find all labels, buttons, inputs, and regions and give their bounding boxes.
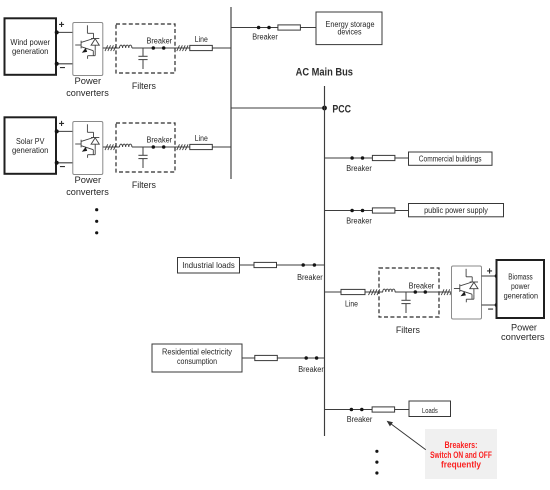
node: solar + terminal (55, 129, 59, 133)
wire: bus to biomass filter (325, 291, 384, 293)
public power supply box (409, 204, 504, 217)
svg-text:+: + (59, 119, 65, 130)
converter IGBT (solar) (IGBT with anti-parallel diode) (75, 124, 99, 158)
svg-text:Line: Line (195, 134, 208, 143)
breaker CB (industrial): label "Breaker" (297, 273, 323, 282)
filter dashed box (solar) (116, 123, 175, 172)
breaker CB (residential): contact dots (304, 356, 318, 360)
svg-text:Filters: Filters (132, 81, 156, 92)
line symbol (residential feeder) (transmission line symbol) (255, 355, 277, 360)
svg-text:Breaker: Breaker (346, 216, 372, 225)
converter IGBT (wind) (IGBT with anti-parallel diode) (75, 25, 99, 59)
svg-text:+: + (487, 267, 493, 278)
svg-text:converters: converters (501, 332, 545, 343)
wire: residential to bus (242, 357, 325, 359)
breaker CB (residential): label "Breaker" (298, 365, 324, 374)
breaker CB (public): label "Breaker" (346, 216, 372, 225)
secondary vertical bus from PCC (324, 86, 326, 436)
svg-text:Line: Line (345, 300, 358, 309)
breaker CB (biomass): label "Breaker" (409, 282, 435, 291)
svg-text:Line: Line (195, 35, 208, 44)
node: wind − terminal (55, 62, 59, 66)
wire: bus to public power supply (325, 210, 409, 212)
ellipsis dots (more generation chains) (95, 208, 98, 234)
filter capacitor C (solar) (138, 147, 147, 168)
wire: bus to commercial buildings (325, 157, 409, 159)
caption "Power converters" (wind) (75, 76, 102, 87)
wire: wind filter to AC main bus (132, 47, 231, 49)
label "−" (wind) (59, 63, 65, 74)
svg-text:Industrial loads: Industrial loads (182, 261, 235, 270)
svg-text:generation: generation (504, 292, 538, 301)
ellipsis dots (more load feeders) (375, 450, 378, 475)
breaker CB-ES: contact dots (257, 26, 271, 30)
svg-text:−: − (59, 162, 65, 173)
line symbol (commercial feeder) (transmission line symbol) (372, 155, 395, 160)
breaker CB (industrial): contact dots (301, 263, 316, 267)
wire: solar filter to AC main bus (132, 146, 231, 148)
breaker CB (solar): label "Breaker" (147, 135, 173, 144)
label "AC Main Bus" (296, 66, 353, 78)
industrial loads box (178, 258, 240, 274)
wind source box (5, 18, 57, 75)
wire: solar + terminal to converter (57, 130, 73, 132)
wire: wind − terminal to converter (57, 63, 73, 65)
filter inductor L (solar) (120, 144, 132, 147)
line symbol (public feeder) (transmission line symbol) (372, 208, 395, 213)
biomass power generation box (497, 260, 545, 318)
svg-text:generation: generation (12, 47, 49, 56)
flexible-link slashes (biomass line side) (hatch marks on wire) (369, 289, 380, 295)
flexible-link slashes (wind line side) (hatch marks on wire) (177, 45, 188, 51)
svg-text:generation: generation (12, 146, 49, 155)
svg-text:Breaker: Breaker (147, 36, 173, 45)
filter capacitor C (wind) (138, 48, 147, 69)
breaker CB (loads): label "Breaker" (347, 415, 373, 424)
svg-text:Power: Power (75, 76, 102, 87)
wire: solar − terminal to converter (57, 162, 73, 164)
svg-text:converters: converters (66, 88, 109, 99)
label "Line" (biomass) (345, 300, 358, 309)
node: biomass − terminal (495, 303, 499, 307)
line symbol (industrial feeder) (transmission line symbol) (254, 262, 277, 267)
svg-text:Biomass: Biomass (508, 273, 532, 282)
wire: biomass filter to converter (395, 291, 452, 293)
flexible-link slashes (wind converter output) (hatch marks on wire) (105, 45, 116, 51)
svg-text:Switch ON and OFF: Switch ON and OFF (430, 450, 492, 460)
label "Line" (wind) (195, 35, 208, 44)
annotation text "Breakers: Switch ON and OFF frequently" (430, 440, 492, 470)
line symbol (biomass feeder) (transmission line symbol) (341, 289, 365, 294)
breaker CB (solar): contact dots (152, 145, 166, 149)
filter inductor L (wind) (120, 45, 132, 48)
svg-text:frequently: frequently (441, 460, 482, 470)
commercial buildings box (409, 152, 493, 165)
node: biomass + terminal (495, 274, 499, 278)
loads box (409, 401, 451, 417)
line symbol (loads feeder) (transmission line symbol) (372, 407, 395, 412)
svg-text:+: + (59, 20, 65, 31)
svg-text:Breakers:: Breakers: (445, 440, 478, 450)
flexible-link slashes (biomass converter input) (hatch marks on wire) (441, 289, 452, 295)
wire: biomass converter − to source (482, 304, 497, 306)
label "+" (solar) (59, 119, 65, 130)
svg-text:Filters: Filters (132, 180, 156, 191)
svg-text:devices: devices (338, 28, 362, 37)
breaker CB (biomass): contact dots (414, 290, 428, 294)
line symbol (solar feeder) (transmission line symbol) (190, 144, 213, 149)
flexible-link slashes (solar converter output) (hatch marks on wire) (105, 144, 116, 150)
breaker CB (public): contact dots (350, 209, 364, 213)
breaker CB (wind): label "Breaker" (147, 36, 173, 45)
annotation arrow pointing to loads breaker (387, 421, 426, 450)
svg-text:Wind power: Wind power (10, 38, 50, 47)
breaker CB (commercial): contact dots (350, 156, 364, 160)
svg-text:power: power (511, 282, 530, 291)
svg-text:Breaker: Breaker (409, 282, 435, 291)
svg-text:Breaker: Breaker (252, 33, 278, 42)
svg-text:Breaker: Breaker (346, 164, 372, 173)
label "+" (wind) (59, 20, 65, 31)
converter IGBT (biomass) (IGBT with anti-parallel diode) (454, 269, 478, 303)
svg-text:consumption: consumption (177, 357, 217, 366)
caption "Power converters" (solar) (75, 175, 102, 186)
flexible-link slashes (solar line side) (hatch marks on wire) (177, 144, 188, 150)
svg-text:−: − (59, 63, 65, 74)
breaker CB (commercial): label "Breaker" (346, 164, 372, 173)
power converter box (biomass) (452, 266, 482, 319)
svg-text:Residential electricity: Residential electricity (162, 348, 232, 357)
breaker CB (wind): contact dots (152, 46, 166, 50)
label "PCC" (332, 104, 351, 116)
svg-text:Power: Power (75, 175, 102, 186)
line symbol (wind feeder) (transmission line symbol) (190, 45, 213, 50)
svg-text:Solar PV: Solar PV (16, 137, 45, 146)
node: wind + terminal (55, 30, 59, 34)
caption "Filters" (solar) (132, 180, 156, 191)
svg-text:Breaker: Breaker (347, 415, 373, 424)
wire: bus tie to PCC (231, 107, 325, 109)
power converter box (wind) (73, 23, 103, 76)
caption "Power converters" (biomass) (511, 323, 538, 334)
solar source box (5, 117, 57, 174)
svg-text:AC Main Bus: AC Main Bus (296, 66, 353, 78)
svg-text:Commercial buildings: Commercial buildings (419, 155, 482, 164)
wire: bus to loads (325, 409, 410, 411)
wire: biomass converter + to source (482, 275, 497, 277)
label "−" (solar) (59, 162, 65, 173)
wire: wind + terminal to converter (57, 31, 73, 33)
residential electricity consumption box (152, 344, 242, 372)
wire: solar converter to filter (103, 146, 120, 148)
svg-text:−: − (488, 304, 494, 315)
caption "Filters" (wind) (132, 81, 156, 92)
line symbol (energy storage feeder) (transmission line symbol) (278, 25, 301, 30)
svg-text:Filters: Filters (396, 325, 420, 336)
filter capacitor C (biomass) (401, 292, 410, 313)
filter dashed box (wind) (116, 24, 175, 73)
svg-text:Breaker: Breaker (297, 273, 323, 282)
breaker CB-ES: label "Breaker" (252, 33, 278, 42)
svg-text:converters: converters (66, 187, 109, 198)
AC main bus (left vertical bus) (230, 7, 232, 179)
svg-text:Breaker: Breaker (298, 365, 324, 374)
energy storage devices box (316, 12, 382, 45)
wire: wind converter to filter (103, 47, 120, 49)
node: solar − terminal (55, 161, 59, 165)
label "−" (biomass) (488, 304, 494, 315)
breaker CB (loads): contact dots (350, 408, 364, 412)
svg-text:public power supply: public power supply (424, 206, 488, 215)
power converter box (solar) (73, 122, 103, 175)
label "Line" (solar) (195, 134, 208, 143)
caption "Filters" (biomass) (396, 325, 420, 336)
svg-text:Breaker: Breaker (147, 135, 173, 144)
svg-text:PCC: PCC (332, 104, 351, 116)
svg-text:Loads: Loads (422, 406, 438, 415)
label "+" (biomass) (487, 267, 493, 278)
filter dashed box (biomass) (379, 268, 439, 317)
annotation callout box (gray) (425, 429, 497, 479)
filter inductor L (biomass) (383, 289, 395, 292)
PCC node junction dot (322, 106, 327, 111)
label "Energy storage devices" (326, 20, 375, 29)
wire: bus to energy storage devices (231, 27, 316, 29)
wire: industrial loads to bus (240, 264, 325, 266)
